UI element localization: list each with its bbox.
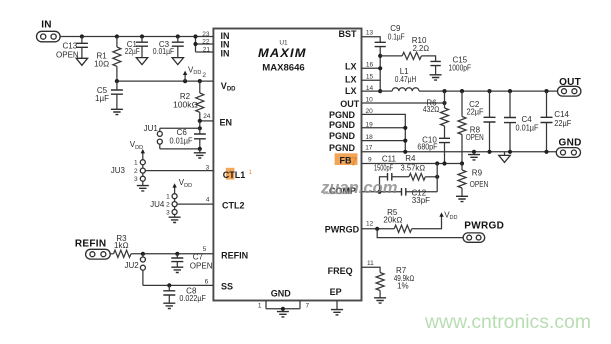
svg-text:22µF: 22µF bbox=[467, 108, 484, 117]
node C14 top on OUT rail bbox=[544, 89, 548, 93]
capacitor C3 0.01uF bbox=[153, 37, 184, 58]
watermark zuan.com bbox=[320, 179, 398, 197]
ground under R7 bbox=[374, 298, 386, 303]
ground under C5 bbox=[111, 109, 123, 114]
wire COMP riser to C11 branch bbox=[380, 177, 388, 192]
node R4/C12 riser junction bbox=[435, 175, 439, 179]
svg-text:CTL1: CTL1 bbox=[223, 170, 246, 180]
svg-text:PGND: PGND bbox=[329, 131, 356, 141]
wire PGND pin 20 stub bbox=[362, 114, 406, 151]
wire R5 to VDD riser bbox=[412, 216, 442, 229]
ground arrow under C1 bbox=[136, 58, 147, 65]
svg-text:2: 2 bbox=[134, 168, 138, 175]
node LX pin14 / L1 junction bbox=[378, 89, 382, 93]
wire OUT rail (LX to OUT connector) bbox=[419, 90, 558, 92]
svg-text:0.01µF: 0.01µF bbox=[170, 137, 193, 146]
wire JU1 top bbox=[160, 127, 200, 129]
node EN/R2 junction bbox=[198, 119, 202, 123]
capacitor C15 1000pF bbox=[430, 55, 471, 74]
svg-text:432Ω: 432Ω bbox=[423, 105, 440, 114]
node VDD arrow junction bbox=[183, 79, 187, 83]
node C4 top on OUT rail bbox=[508, 89, 512, 93]
capacitor C11 1500pF bbox=[374, 154, 396, 180]
node R8 top on OUT rail bbox=[460, 89, 464, 93]
svg-text:3: 3 bbox=[166, 210, 170, 217]
wire IN rail to pin 23 bbox=[60, 36, 213, 38]
node C7 junction bbox=[175, 252, 179, 256]
ground under EP bbox=[331, 310, 343, 315]
wire C9 to LX bus bbox=[379, 47, 381, 92]
node IN/R1 junction bbox=[115, 34, 119, 38]
ground arrow under C3 bbox=[172, 58, 183, 65]
svg-text:5: 5 bbox=[203, 246, 207, 253]
svg-text:20: 20 bbox=[366, 108, 374, 115]
node OUT pin10 / R6 junction bbox=[442, 101, 446, 105]
resistor R7 49.9k 1% bbox=[376, 266, 414, 298]
wire LX pin 16 stub bbox=[362, 67, 381, 69]
power VDD arrow (input rail) bbox=[183, 65, 201, 81]
resistor R1 10ohm bbox=[94, 37, 121, 82]
ground under JU3 bbox=[137, 186, 149, 191]
wire JU4 pin2 to CTL2 (pin 4) bbox=[177, 203, 213, 205]
node PGND pin19 junction bbox=[403, 126, 407, 130]
svg-text:C13: C13 bbox=[63, 41, 78, 50]
node PGND pin18 junction bbox=[403, 139, 407, 143]
connector J-REFIN (2-pin header) bbox=[86, 249, 111, 259]
wire PGND pin 19 stub bbox=[362, 127, 406, 129]
svg-text:22: 22 bbox=[202, 38, 210, 45]
wire EN node down to JU1/C6 bbox=[199, 121, 201, 128]
svg-text:15: 15 bbox=[366, 73, 374, 80]
svg-text:9: 9 bbox=[368, 156, 372, 163]
svg-text:1000pF: 1000pF bbox=[449, 64, 472, 73]
svg-text:EP: EP bbox=[330, 287, 342, 297]
capacitor C2 22uF bbox=[467, 91, 496, 152]
ground under GND pins bbox=[277, 312, 289, 317]
capacitor C10 680pF bbox=[417, 136, 450, 164]
svg-text:1500pF: 1500pF bbox=[374, 164, 393, 173]
svg-text:zuan.com: zuan.com bbox=[320, 179, 398, 197]
node ground stub on GND rail bbox=[472, 150, 476, 154]
svg-text:C14: C14 bbox=[554, 110, 569, 119]
connector J-IN (2-pin header) bbox=[37, 31, 61, 42]
wire R4 to riser bbox=[425, 176, 437, 178]
node C8 junction bbox=[167, 283, 171, 287]
wire R10 to C15 bbox=[421, 56, 435, 62]
wire PWRGD to connector bbox=[377, 229, 463, 238]
svg-text:0.022µF: 0.022µF bbox=[179, 294, 206, 303]
svg-text:16: 16 bbox=[366, 62, 374, 69]
wire C11 to R4 bbox=[392, 176, 409, 178]
svg-text:18: 18 bbox=[366, 134, 374, 141]
svg-text:3: 3 bbox=[134, 176, 138, 183]
resistor R9 OPEN bbox=[458, 164, 488, 197]
svg-text:EN: EN bbox=[220, 117, 233, 127]
op-amp U1 MAX8646 IC body bbox=[213, 29, 361, 301]
node PWRGD junction bbox=[375, 227, 379, 231]
svg-text:REFIN: REFIN bbox=[75, 239, 107, 250]
svg-text:LX: LX bbox=[345, 62, 357, 72]
node R6 top on OUT rail bbox=[442, 89, 446, 93]
ground under JU4 bbox=[169, 217, 181, 222]
svg-text:PGND: PGND bbox=[329, 120, 356, 130]
capacitor C5 1uF bbox=[95, 81, 123, 109]
svg-text:OPEN: OPEN bbox=[190, 261, 213, 270]
wire VDD rail to pin 2 bbox=[117, 80, 213, 82]
svg-text:19: 19 bbox=[366, 121, 374, 128]
svg-text:1µF: 1µF bbox=[95, 94, 109, 103]
svg-text:JU2: JU2 bbox=[124, 261, 139, 270]
svg-text:100kΩ: 100kΩ bbox=[173, 100, 198, 109]
ground arrow under C13 bbox=[76, 58, 87, 65]
node C2 top on OUT rail bbox=[487, 89, 491, 93]
node R2 top junction bbox=[198, 79, 202, 83]
highlight FB bbox=[335, 153, 358, 165]
node pin21 branch junction bbox=[193, 42, 197, 46]
svg-text:7: 7 bbox=[351, 155, 358, 169]
highlight CTL1 bbox=[226, 168, 235, 180]
svg-text:3.57kΩ: 3.57kΩ bbox=[401, 164, 426, 173]
wire EN pin 24 stub bbox=[200, 120, 214, 122]
wire JU1 bottom bbox=[160, 148, 200, 150]
node JU2 junction bbox=[141, 252, 145, 256]
wire C12 to riser bbox=[406, 191, 437, 193]
node IN/C3 junction bbox=[176, 34, 180, 38]
svg-text:20kΩ: 20kΩ bbox=[383, 216, 402, 225]
svg-text:22µF: 22µF bbox=[554, 119, 571, 128]
capacitor C7 (OPEN) bbox=[171, 253, 212, 271]
svg-text:PGND: PGND bbox=[329, 143, 356, 153]
svg-text:GND: GND bbox=[271, 288, 292, 298]
wire BST pin 13 stub bbox=[362, 37, 381, 43]
resistor R3 1k bbox=[110, 234, 131, 257]
svg-text:2: 2 bbox=[166, 202, 170, 209]
wire GND pins 1,7 bbox=[266, 301, 300, 312]
svg-text:1: 1 bbox=[166, 194, 170, 201]
svg-text:PGND: PGND bbox=[329, 110, 356, 120]
node C11/R4 riser on FB rail bbox=[435, 161, 439, 165]
svg-text:1%: 1% bbox=[397, 281, 409, 290]
svg-text:6: 6 bbox=[205, 278, 209, 285]
wire COMP pin 8 stub bbox=[362, 191, 380, 193]
node C14 bottom on GND rail bbox=[544, 150, 548, 154]
svg-text:24: 24 bbox=[203, 113, 211, 120]
resistor R2 100k bbox=[173, 81, 204, 121]
svg-text:23: 23 bbox=[202, 31, 210, 38]
capacitor C6 0.01uF bbox=[170, 128, 206, 149]
ground under C7 bbox=[171, 267, 183, 272]
wire COMP to C12 bbox=[380, 191, 402, 193]
jumper JU1 bbox=[144, 124, 163, 149]
node IN/C13 junction bbox=[80, 34, 84, 38]
svg-text:LX: LX bbox=[345, 86, 357, 96]
node PGND bus / GND rail junction bbox=[403, 150, 407, 154]
svg-text:12: 12 bbox=[366, 221, 374, 228]
pin label FB (pin 9) bbox=[340, 155, 358, 169]
node IN/C1 junction bbox=[140, 34, 144, 38]
svg-text:22µF: 22µF bbox=[125, 47, 140, 56]
resistor R10 2.2ohm bbox=[380, 36, 429, 60]
capacitor C12 33pF bbox=[402, 188, 431, 205]
capacitor C4 0.01uF bbox=[504, 91, 539, 152]
node R8/R9 on FB rail bbox=[460, 161, 464, 165]
svg-text:IN: IN bbox=[221, 49, 230, 59]
pin label CTL1 (pin 3) bbox=[223, 170, 253, 180]
ground arrow on GND rail bbox=[499, 152, 510, 163]
svg-text:4: 4 bbox=[206, 197, 210, 204]
node JU1 top wire junction bbox=[198, 126, 202, 130]
inductor L1 0.47uH bbox=[380, 67, 419, 91]
node C6 ground junction bbox=[198, 147, 202, 151]
svg-text:0.01µF: 0.01µF bbox=[516, 123, 539, 132]
wire JU3 pin2 to CTL1 (pin 3) bbox=[145, 170, 213, 172]
svg-text:JU3: JU3 bbox=[111, 166, 126, 175]
capacitor C1 22uF bbox=[125, 37, 148, 58]
resistor R5 20k bbox=[383, 208, 411, 233]
capacitor C13 (OPEN) bbox=[56, 37, 88, 60]
svg-text:7: 7 bbox=[306, 302, 310, 309]
svg-text:C11: C11 bbox=[382, 154, 397, 163]
wire JU2 to SS pin 6 bbox=[143, 284, 214, 286]
svg-text:11: 11 bbox=[367, 260, 374, 267]
svg-text:0.1µF: 0.1µF bbox=[388, 33, 405, 42]
svg-text:GND: GND bbox=[559, 138, 582, 149]
power VDD arrow at JU4 bbox=[172, 178, 192, 194]
svg-text:IN: IN bbox=[41, 19, 52, 30]
svg-text:1: 1 bbox=[258, 302, 262, 309]
svg-text:FREQ: FREQ bbox=[328, 266, 353, 276]
svg-text:CTL2: CTL2 bbox=[222, 200, 245, 210]
connector J-PWRGD (2-pin header) bbox=[463, 233, 485, 242]
svg-text:1kΩ: 1kΩ bbox=[114, 241, 129, 250]
node COMP junction bbox=[377, 190, 381, 194]
svg-text:R9: R9 bbox=[472, 169, 483, 178]
jumper JU4 bbox=[150, 194, 177, 218]
svg-text:REFIN: REFIN bbox=[221, 251, 248, 261]
svg-text:1: 1 bbox=[134, 160, 138, 167]
node C10 bottom on FB rail bbox=[442, 161, 446, 165]
wire FB pin 9 rail bbox=[362, 163, 463, 165]
wire LX pin 14 stub bbox=[362, 90, 381, 92]
resistor R8 OPEN bbox=[458, 91, 484, 163]
svg-text:LX: LX bbox=[345, 75, 357, 85]
node C2 bottom on GND rail bbox=[487, 150, 491, 154]
svg-text:OUT: OUT bbox=[340, 99, 360, 109]
node VDD rail / R1 / C5 bbox=[115, 79, 119, 83]
svg-text:10: 10 bbox=[366, 96, 374, 103]
ground under C6 bbox=[194, 149, 206, 158]
resistor R6 432ohm bbox=[423, 91, 449, 138]
wire OUT pin 10 stub bbox=[362, 102, 445, 104]
wire PWRGD pin 12 stub bbox=[362, 228, 395, 230]
wire EP pad stub bbox=[336, 301, 338, 310]
svg-text:680pF: 680pF bbox=[417, 142, 437, 151]
svg-text:R4: R4 bbox=[405, 154, 416, 163]
capacitor C14 22uF bbox=[541, 91, 572, 152]
svg-text:2.2Ω: 2.2Ω bbox=[413, 44, 430, 53]
svg-text:MAXIM: MAXIM bbox=[258, 48, 307, 60]
svg-text:BST: BST bbox=[339, 29, 358, 39]
wire R3 to REFIN pin 5 bbox=[131, 253, 213, 255]
node pin22 branch junction bbox=[193, 34, 197, 38]
svg-text:2: 2 bbox=[202, 72, 206, 79]
capacitor C8 0.022uF bbox=[163, 285, 206, 303]
node C4 bottom on GND rail bbox=[508, 150, 512, 154]
wire riser FB rail to C12 bbox=[436, 164, 438, 192]
resistor R4 3.57k bbox=[401, 154, 426, 180]
svg-text:OPEN: OPEN bbox=[466, 133, 484, 142]
svg-text:0.01µF: 0.01µF bbox=[153, 47, 175, 56]
ground under R9 bbox=[456, 196, 468, 201]
jumper JU3 bbox=[111, 160, 146, 186]
svg-text:10Ω: 10Ω bbox=[94, 60, 109, 69]
capacitor C9 0.1uF bbox=[375, 24, 405, 46]
wire GND rail (pin 17 to GND connector) bbox=[362, 151, 557, 153]
svg-text:3: 3 bbox=[206, 164, 210, 171]
svg-text:21: 21 bbox=[203, 47, 211, 54]
svg-text:U1: U1 bbox=[279, 40, 288, 47]
wire PGND pin 18 stub bbox=[362, 140, 406, 142]
node C9/R10 junction bbox=[378, 54, 382, 58]
ground under C15 bbox=[430, 75, 442, 80]
node GND pins junction bbox=[281, 307, 285, 311]
connector J-OUT (2-pin header) bbox=[558, 86, 581, 96]
svg-text:MAX8646: MAX8646 bbox=[262, 62, 305, 72]
svg-text:SS: SS bbox=[221, 281, 233, 291]
svg-text:PWRGD: PWRGD bbox=[464, 220, 504, 231]
power VDD arrow at JU3 bbox=[130, 140, 145, 160]
node LX pin16 junction bbox=[378, 66, 382, 70]
svg-text:JU4: JU4 bbox=[150, 200, 165, 209]
wire branch to pins 22/21 bbox=[196, 37, 214, 53]
wire LX pin 15 stub bbox=[362, 79, 381, 81]
ground on GND rail bbox=[468, 155, 480, 160]
svg-text:PWRGD: PWRGD bbox=[325, 224, 360, 234]
connector J-GND (2-pin header) bbox=[556, 148, 580, 158]
jumper JU2 bbox=[124, 254, 145, 286]
power VDD arrow at R5 bbox=[439, 210, 457, 221]
ground under C8 bbox=[163, 303, 175, 308]
svg-text:14: 14 bbox=[366, 85, 374, 92]
svg-text:www.cntronics.com: www.cntronics.com bbox=[424, 312, 591, 333]
svg-text:0.47µH: 0.47µH bbox=[395, 75, 417, 84]
svg-text:33pF: 33pF bbox=[412, 196, 430, 205]
svg-text:OPEN: OPEN bbox=[470, 180, 489, 189]
wire FREQ pin 11 stub bbox=[362, 267, 381, 272]
svg-text:JU1: JU1 bbox=[144, 124, 159, 133]
svg-text:13: 13 bbox=[366, 29, 374, 36]
svg-text:17: 17 bbox=[365, 145, 373, 152]
